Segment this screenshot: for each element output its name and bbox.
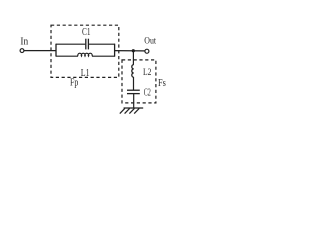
svg-text:In: In <box>20 36 28 47</box>
junction dot <box>132 49 135 52</box>
svg-text:L2: L2 <box>143 68 152 78</box>
wire node to Out <box>115 50 145 52</box>
wire bottom branch right <box>92 55 115 57</box>
svg-text:C2: C2 <box>144 88 151 99</box>
svg-text:Out: Out <box>144 36 156 46</box>
dashed box Fp (parallel resonator enclosure) <box>51 25 119 77</box>
capacitor C2 <box>127 90 140 93</box>
svg-text:Fs: Fs <box>158 78 166 89</box>
wire top branch right <box>89 43 115 45</box>
wire In to node <box>24 50 56 52</box>
wire bottom branch left <box>56 55 78 57</box>
capacitor C1 <box>86 39 89 50</box>
inductor L1 <box>78 53 93 56</box>
node left bar <box>55 44 57 57</box>
wire top branch left <box>56 43 85 45</box>
wire L2 to C2 <box>132 77 134 90</box>
terminal Out <box>145 49 149 53</box>
ground <box>120 108 143 114</box>
dashed box Fs (series resonator enclosure) <box>122 60 156 103</box>
wire C2 to ground <box>133 94 135 108</box>
node right bar <box>114 44 116 57</box>
svg-text:C1: C1 <box>82 27 91 38</box>
terminal In <box>20 49 24 53</box>
svg-text:Fp: Fp <box>70 78 78 89</box>
wire junction down to L2 <box>132 51 134 65</box>
svg-text:L1: L1 <box>81 68 90 79</box>
inductor L2 <box>132 65 134 78</box>
